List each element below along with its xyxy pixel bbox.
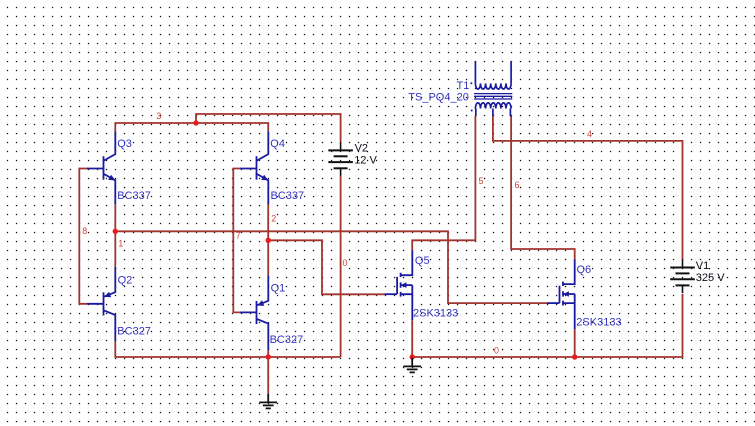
ground below Q1: [259, 394, 277, 409]
svg-text:2: 2: [271, 214, 276, 224]
svg-text:12 V: 12 V: [354, 154, 377, 166]
svg-text:BC327: BC327: [117, 325, 151, 337]
junction node net 0 at ground G2: [410, 354, 415, 359]
svg-text:2SK3133: 2SK3133: [413, 307, 458, 319]
svg-text:Q3: Q3: [117, 138, 132, 150]
wire net 0: bottom left rail Q2 collector to V2: [115, 341, 340, 357]
transistor Q4 BC337: [240, 131, 268, 204]
svg-text:7: 7: [236, 231, 241, 241]
svg-text:Q6: Q6: [577, 264, 592, 276]
battery V2 12 V: [328, 142, 353, 176]
wire net 5: Q5 drain to transformer secondary left: [412, 116, 475, 251]
wire net 0: stem to ground G1: [267, 357, 269, 394]
wire net 0: Q1 collector drop: [267, 350, 269, 357]
transistor Q2 BC327: [87, 267, 115, 342]
svg-text:BC337: BC337: [271, 190, 305, 202]
svg-text:V2: V2: [355, 142, 368, 154]
transistor Q1 BC327: [240, 275, 268, 350]
svg-text:1: 1: [118, 239, 123, 249]
wire net 0: V2 - terminal down to bottom rail: [340, 176, 342, 357]
transistor Q6 2SK3133: [547, 259, 575, 329]
wire net 8: left rail Q3 base to Q2 base: [79, 169, 88, 304]
svg-text:V1: V1: [696, 260, 709, 272]
svg-text:8: 8: [82, 226, 87, 236]
svg-text:T1: T1: [457, 80, 470, 92]
junction node net 2: [266, 238, 271, 243]
transistor Q3 BC337: [87, 131, 115, 204]
svg-text:BC337: BC337: [117, 190, 151, 202]
svg-text:BC327: BC327: [270, 334, 304, 346]
svg-text:Q4: Q4: [270, 138, 285, 150]
wire net 7: Q4 base rail down to Q1 base: [233, 169, 240, 313]
wire net 1: long horizontal to Q6 gate: [115, 231, 547, 303]
wire net 6: transformer secondary right to Q6 drain: [511, 116, 575, 259]
svg-text:4: 4: [587, 129, 592, 139]
wire net 0: bottom right rail Q5 source to V1 - terminal: [412, 294, 682, 357]
svg-text:0: 0: [494, 345, 499, 355]
battery V1 325 V: [670, 259, 695, 293]
svg-text:0: 0: [343, 258, 348, 268]
wire net 2: branch junction to Q5 gate: [268, 240, 384, 294]
svg-text:2SK3133: 2SK3133: [576, 317, 621, 329]
wire net 2: Q4 emitter down through junction to Q1 emitter: [267, 203, 269, 275]
wire net 1: Q3 emitter down through junction to Q2 emitter: [114, 204, 116, 266]
wire net 3: Q3 collector to Q4 collector top rail: [115, 123, 268, 131]
wire net 0: Q6 source drop: [574, 329, 576, 357]
svg-text:Q1: Q1: [271, 283, 286, 295]
svg-text:Q2: Q2: [118, 274, 133, 286]
junction node net 0 at Q6 source: [572, 354, 577, 359]
ground below Q5: [403, 358, 421, 373]
svg-text:Q5: Q5: [415, 255, 430, 267]
junction node net 3: [193, 120, 198, 125]
svg-text:6: 6: [515, 180, 520, 190]
wire net 4: transformer secondary centre tap to V1 + terminal: [493, 116, 683, 260]
transistor Q5 2SK3133: [385, 250, 413, 320]
wire net 3: branch from junction to V2 + terminal: [196, 114, 341, 142]
transformer T1 TS_PQ4_20: [470, 61, 512, 116]
svg-text:5: 5: [479, 176, 484, 186]
wire net 0: Q5 source drop: [411, 320, 413, 357]
svg-text:3: 3: [156, 111, 161, 121]
junction node net 1: [113, 229, 118, 234]
svg-text:325 V: 325 V: [696, 272, 725, 284]
svg-text:TS_PQ4_20: TS_PQ4_20: [408, 91, 469, 103]
junction node net 0 at ground G1: [266, 354, 271, 359]
